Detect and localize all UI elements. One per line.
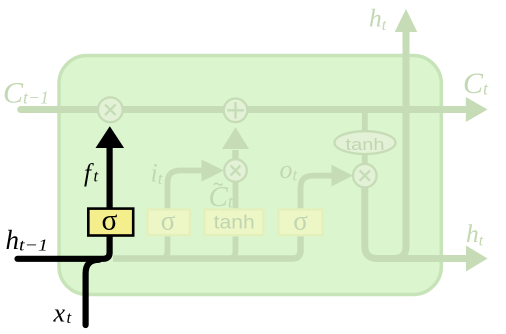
op circle: multiply i*C~ (faded)	[224, 159, 247, 182]
wire: C~ path from tanh box up to multiply (faded)	[233, 182, 239, 210]
arrow: i_t into multiply (faded)	[202, 160, 225, 182]
arrow: C_t right (faded)	[466, 97, 488, 122]
wire: h up branch (faded)	[394, 32, 406, 259]
arrow: into plus from below (faded)	[222, 127, 249, 149]
wire: C line down into tanh oval (faded)	[362, 111, 368, 132]
arrow: o_t into multiply (faded)	[332, 165, 354, 187]
gate box: input gate sigma (faded)	[147, 206, 190, 236]
wire: i_t path from sigma box to multiply (faded)	[168, 171, 203, 211]
op circle: multiply o*tanh (faded)	[353, 164, 377, 188]
wire: from multiply up to plus (faded)	[232, 150, 239, 160]
gate box: forget gate sigma (highlighted yellow)	[88, 204, 133, 236]
wire: o_t path from sigma box to multiply (faded)	[301, 176, 333, 210]
arrow: h_t right (faded)	[466, 246, 488, 272]
wire: merged input line feeding gates (faded)	[113, 236, 301, 259]
svg-text:σ: σ	[102, 204, 118, 236]
gate box: candidate tanh (faded)	[204, 209, 263, 235]
op circle: pointwise add on C line (faded)	[224, 99, 248, 123]
svg-text:σ: σ	[293, 206, 308, 236]
wire: branch up into tanh box (faded)	[229, 236, 236, 259]
gate box: output gate sigma (faded)	[278, 206, 322, 236]
LSTM cell body	[59, 56, 441, 295]
wire: h bottom path from x3 down and right (faded)	[365, 186, 466, 259]
svg-text:σ: σ	[161, 206, 176, 236]
arrow: f_t into multiply (black)	[96, 126, 125, 148]
svg-text:tanh: tanh	[346, 135, 385, 154]
wire: branch up into input gate sigma (faded)	[161, 236, 168, 259]
tanh oval (faded)	[335, 131, 396, 154]
op circle: pointwise multiply on C line (faded)	[98, 97, 123, 122]
wire: x_t input line (black)	[86, 260, 99, 325]
svg-text:tanh: tanh	[214, 213, 255, 234]
arrow: h_t top (faded)	[395, 9, 418, 32]
wire: h_{t-1} input line (black)	[18, 148, 110, 259]
wire: cell state line C (faded)	[21, 106, 466, 113]
wire: tanh oval to multiply (faded)	[362, 153, 368, 165]
